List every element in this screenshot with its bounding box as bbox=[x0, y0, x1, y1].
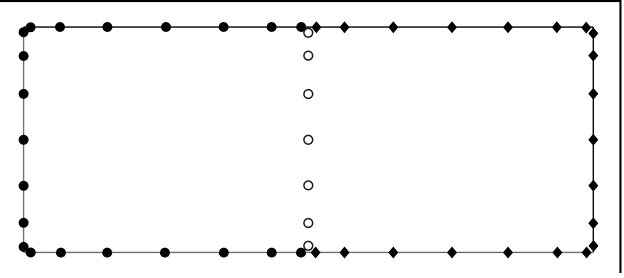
series1 filled circle marker top 1 bbox=[26, 22, 36, 32]
series2 diamond marker top 1 bbox=[311, 21, 321, 33]
series1 filled circle marker bottom 5 bbox=[219, 248, 229, 258]
series3 open circle marker 4 bbox=[304, 135, 313, 144]
series1 filled circle marker top 4 bbox=[161, 22, 171, 32]
series2 diamond marker top 3 bbox=[388, 21, 398, 33]
series2 diamond marker bottom 5 bbox=[503, 247, 513, 259]
series2 diamond marker top 2 bbox=[340, 21, 350, 33]
series1 filled circle marker bottom 2 bbox=[56, 248, 66, 258]
series3 open circle marker 6 bbox=[304, 219, 313, 228]
series1 filled circle marker left 5 bbox=[19, 181, 29, 191]
series2 diamond marker bottom 2 bbox=[340, 247, 350, 259]
series1 filled circle marker bottom 1 bbox=[26, 248, 36, 258]
series2 diamond marker bottom 3 bbox=[388, 247, 398, 259]
series2 diamond marker bottom 6 bbox=[552, 247, 562, 259]
series1 filled circle marker left 4 bbox=[19, 135, 29, 145]
series1 filled circle marker left 7 bbox=[19, 242, 29, 252]
series1 filled circle marker bottom 7 bbox=[296, 248, 306, 258]
series3 open circle marker 7 bbox=[304, 241, 313, 250]
series1 filled circle marker top 5 bbox=[219, 22, 229, 32]
series2 diamond marker right 4 bbox=[588, 134, 598, 146]
plot border left gray bbox=[23, 27, 25, 252]
series1 filled circle marker left 1 bbox=[19, 27, 29, 37]
series3 open circle marker 1 bbox=[304, 28, 313, 37]
series2 diamond marker right 1 bbox=[588, 27, 598, 39]
window frame top edge bbox=[0, 0, 621, 2]
series1 filled circle marker bottom 6 bbox=[267, 248, 277, 258]
series1 filled circle marker bottom 4 bbox=[160, 248, 170, 258]
series1 filled circle marker top 6 bbox=[267, 22, 277, 32]
series2 diamond marker right 7 bbox=[589, 240, 599, 252]
series2 diamond marker top 4 bbox=[447, 21, 457, 33]
series1 filled circle marker bottom 3 bbox=[102, 248, 112, 258]
series2 diamond marker top 7 bbox=[581, 22, 591, 34]
series3 open circle marker 3 bbox=[304, 90, 313, 99]
series2 diamond marker bottom 7 bbox=[582, 247, 592, 259]
series2 diamond marker right 6 bbox=[588, 217, 598, 229]
series1 filled circle marker top 3 bbox=[102, 22, 112, 32]
series2 diamond marker bottom 1 bbox=[311, 247, 321, 259]
series1 filled circle marker top 2 bbox=[55, 22, 65, 32]
series1 filled circle marker left 6 bbox=[19, 218, 29, 228]
window frame right edge bbox=[619, 0, 621, 273]
series1 filled circle marker top 7 bbox=[296, 22, 306, 32]
series2 diamond marker right 5 bbox=[588, 180, 598, 192]
series3 open circle marker 5 bbox=[304, 181, 313, 190]
plot border bottom gray bbox=[24, 251, 594, 253]
series3 open circle marker 2 bbox=[304, 51, 313, 60]
series2 diamond marker right 3 bbox=[588, 88, 598, 100]
series1 filled circle marker left 3 bbox=[19, 89, 29, 99]
series2 diamond marker top 6 bbox=[552, 21, 562, 33]
series2 diamond marker top 5 bbox=[503, 21, 513, 33]
series1 filled circle marker left 2 bbox=[19, 51, 29, 61]
plot border top black bbox=[24, 26, 594, 28]
plot border right black bbox=[592, 27, 594, 252]
series2 diamond marker bottom 4 bbox=[447, 247, 457, 259]
series2 diamond marker right 2 bbox=[588, 50, 598, 62]
